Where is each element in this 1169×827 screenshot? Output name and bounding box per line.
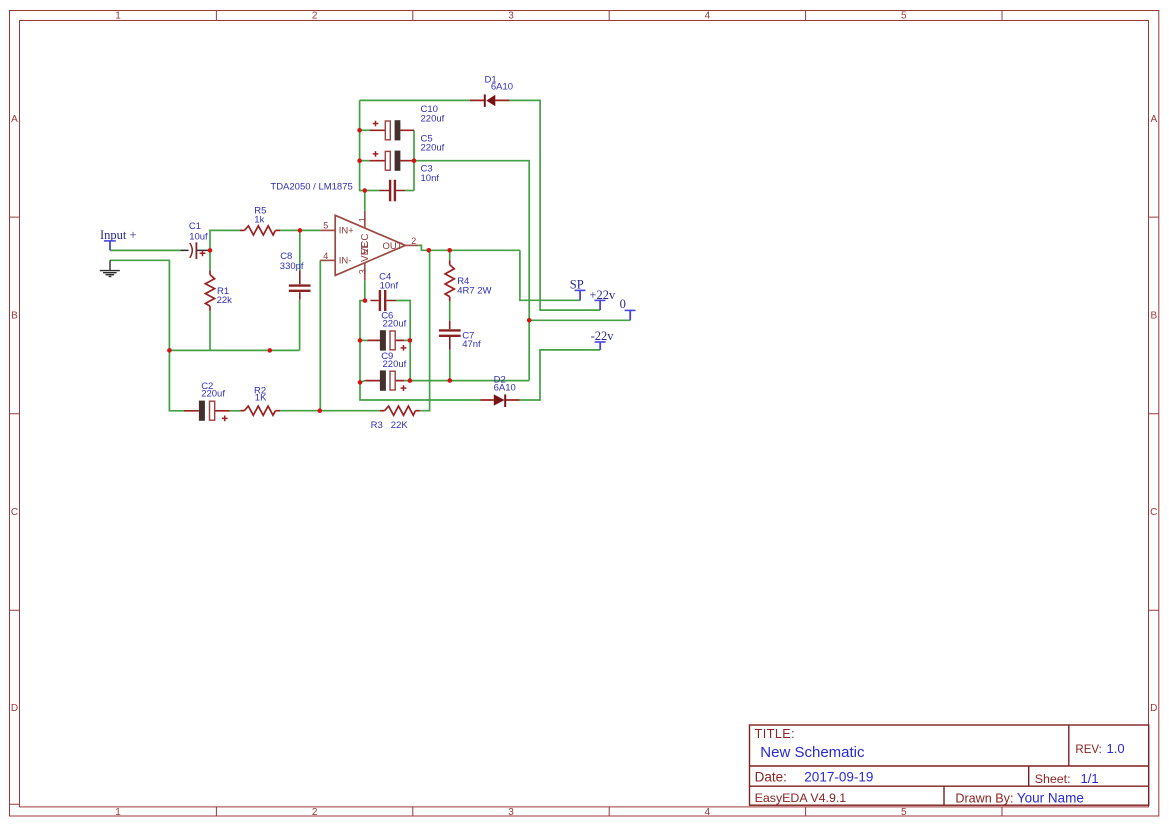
svg-text:Sheet:: Sheet: [1035,772,1071,786]
svg-text:IN+: IN+ [339,225,355,236]
capacitor C10 [370,120,414,140]
capacitor C8 [289,271,311,300]
wire C7 to bottom rail [449,350,451,381]
junction C3 left / pin1 [363,188,368,193]
capacitor C3 [365,180,414,202]
resistor R1 [205,270,214,311]
top ruler ticks [216,11,1002,21]
wire C6 right to rail [404,339,410,341]
right ruler ticks [1149,217,1159,610]
svg-text:New Schematic: New Schematic [760,744,865,761]
label C4 10nf [379,272,398,292]
junction R5/C8/pin5 [298,228,303,233]
junction output / R4 [447,248,452,253]
svg-text:220uf: 220uf [383,318,407,329]
svg-text:TDA2050 / LM1875: TDA2050 / LM1875 [270,182,352,193]
svg-text:330pf: 330pf [280,261,304,272]
label C2 220uf [201,381,225,400]
junction C1/R1/R5 [208,248,213,253]
left ruler ticks [10,217,20,804]
title block outline [750,725,1149,805]
junction IN- / R2 / R3 [318,408,323,413]
wire input flag to C1 [110,249,180,251]
net flag 0 [620,297,636,320]
svg-text:3: 3 [508,11,514,22]
svg-text:REV:: REV: [1075,744,1101,756]
wire rail to C5 [360,160,370,162]
svg-text:2: 2 [312,807,318,818]
label D1 6A10 [485,74,514,92]
junction C7 / bottom rail [448,378,453,383]
wire C1 junction up to R5 line [210,230,240,250]
label C10 220uf [421,104,445,125]
svg-text:6A10: 6A10 [494,383,516,394]
svg-text:47nf: 47nf [462,339,481,350]
ground [100,260,120,276]
svg-text:4: 4 [323,251,328,261]
svg-text:2: 2 [411,236,416,246]
title block row divider 1 [750,765,1149,767]
wire ground run [110,260,169,350]
wire top rail to D1 [360,99,470,101]
wire C8 bottom riser [299,300,301,351]
title block REV cell divider [1068,725,1070,766]
title block Sheet cell divider [1028,766,1030,786]
capacitor C1 [180,242,209,259]
wire output to R4 [449,250,451,260]
label C3 10nf [421,164,440,184]
label C9 220uf [381,351,406,370]
resistor R2 [240,406,280,415]
svg-text:1: 1 [115,11,121,22]
resistor R3 [380,406,420,415]
svg-text:6A10: 6A10 [491,82,513,93]
svg-text:SP: SP [570,278,584,292]
junction pin3 / C4 [363,298,368,303]
svg-text:5: 5 [901,11,907,22]
label D2 6A10 [494,375,516,394]
svg-text:1.0: 1.0 [1107,741,1125,756]
svg-text:VEE: VEE [360,242,371,262]
wire zero net to flag [529,319,630,321]
resistor R5 [240,226,280,235]
svg-text:R3: R3 [371,420,383,431]
svg-text:-22v: -22v [591,329,615,343]
svg-text:220uf: 220uf [421,114,445,125]
svg-text:0: 0 [620,297,626,311]
junction C9 right / mini rail [408,378,413,383]
capacitor C5 [370,151,414,171]
net flag Input + [100,228,137,250]
svg-text:Your Name: Your Name [1017,790,1084,805]
svg-text:C: C [11,507,18,518]
svg-text:22K: 22K [391,420,409,431]
svg-text:3: 3 [508,807,514,818]
wire R5 to op-amp pin 5 [280,229,320,231]
wire C8 top riser [299,230,301,270]
wire left top rail [360,100,365,190]
svg-text:2: 2 [312,11,318,22]
svg-text:C8: C8 [280,251,292,262]
junction output / feedback [427,248,432,253]
junction rail / C5 [357,158,362,163]
wire C9 right to rail [404,380,410,382]
wire C1 junction down to R1 [209,250,211,270]
wire R1 bottom to mid rail [209,311,211,351]
net flag +22v [589,288,616,310]
svg-text:B: B [1150,310,1157,321]
title block row divider 2 [750,785,1149,787]
wire D1 to +22v run [510,100,600,310]
svg-text:5: 5 [323,221,328,231]
svg-text:220uf: 220uf [201,389,225,400]
junction low rail / C6 [358,338,363,343]
svg-text:A: A [1150,114,1157,125]
wire C5 to zero-net rail [414,161,529,381]
junction mid rail segment joint [268,348,273,353]
wire D2 to -22v run [519,350,600,400]
junction C5 right / zero rail [412,158,417,163]
svg-text:Input +: Input + [100,228,137,242]
svg-text:4: 4 [705,11,711,22]
wire bottom horizontal rail [410,380,529,382]
junction rail / C10 [357,128,362,133]
wire C4 right to right mini rail [396,301,410,381]
wire C2 to R2 [230,410,241,412]
svg-text:22k: 22k [217,295,233,306]
svg-text:EasyEDA V4.9.1: EasyEDA V4.9.1 [755,791,847,805]
wire rail to C10 [360,129,370,131]
label C1 10uf [189,221,208,242]
wire C9 left jog [360,381,365,383]
diode D1 [470,94,510,107]
svg-text:1: 1 [115,807,121,818]
wire SP run [520,250,581,300]
wire low left rail to D2 [360,382,481,400]
svg-text:4: 4 [705,807,711,818]
capacitor C7 [439,321,461,350]
bottom ruler ticks [216,807,1002,816]
capacitor C9 [365,370,406,391]
wire IN- vertical [319,260,321,410]
svg-text:C: C [1150,507,1157,518]
svg-text:220uf: 220uf [383,359,407,370]
junction C6 right / mini rail [408,338,413,343]
op-amp U1 TDA2050/LM1875 [320,211,418,280]
wire pin 3 down to C4 [364,280,366,300]
svg-text:C1: C1 [189,221,201,232]
wire R2 to R3 [280,410,380,412]
svg-text:D: D [11,703,18,714]
diode D2 [481,394,520,407]
svg-text:TITLE:: TITLE: [755,727,796,741]
svg-text:OUT: OUT [383,241,403,252]
svg-text:D: D [1150,703,1157,714]
net flag -22v [591,329,615,350]
svg-text:A: A [11,114,18,125]
wire C3 junction to pin 1 [364,191,366,211]
label R2 1K [254,385,267,403]
svg-text:1/1: 1/1 [1081,771,1099,786]
svg-text:IN-: IN- [339,256,352,267]
svg-text:10nf: 10nf [421,173,440,184]
svg-text:10uf: 10uf [189,231,208,242]
junction ground rail / mid rail [167,348,172,353]
svg-text:1K: 1K [255,393,267,404]
capacitor C2 [184,401,230,422]
label C8 330pf [280,251,304,272]
svg-text:220uf: 220uf [421,143,445,154]
svg-text:2017-09-19: 2017-09-19 [804,770,873,785]
label C7 47nf [462,330,481,350]
label C6 220uf [381,310,406,329]
svg-text:4R7 2W: 4R7 2W [457,286,491,297]
wire left rail down to C2 [169,350,184,410]
resistor R4 [445,260,454,301]
label R1 22k [217,286,233,306]
svg-text:3: 3 [357,269,367,274]
junction zero rail / zero flag [527,318,532,323]
label R5 1k [254,206,266,226]
label R4 4R7 2W [457,276,491,297]
net flag SP [570,278,586,301]
svg-text:10nf: 10nf [380,280,399,291]
capacitor C6 [360,330,406,351]
label C5 220uf [421,134,445,154]
wire right mini rail C10-C3 [413,130,415,190]
wire op-amp output [418,245,520,250]
title block DrawnBy cell divider [943,786,945,805]
wire R3 to feedback riser [420,250,430,410]
label R3 22K [371,420,409,431]
junction low rail / C9 [358,380,363,385]
svg-text:Date:: Date: [755,770,787,785]
svg-text:1: 1 [357,217,367,222]
svg-text:Drawn By:: Drawn By: [955,791,1013,805]
wire C4 junction to low left rail [360,301,365,383]
capacitor C4 [370,290,396,311]
wire mid horizontal rail [169,349,299,351]
svg-text:1k: 1k [254,215,264,226]
wire R4 to C7 [449,301,451,321]
svg-text:5: 5 [901,807,907,818]
svg-text:B: B [11,310,18,321]
